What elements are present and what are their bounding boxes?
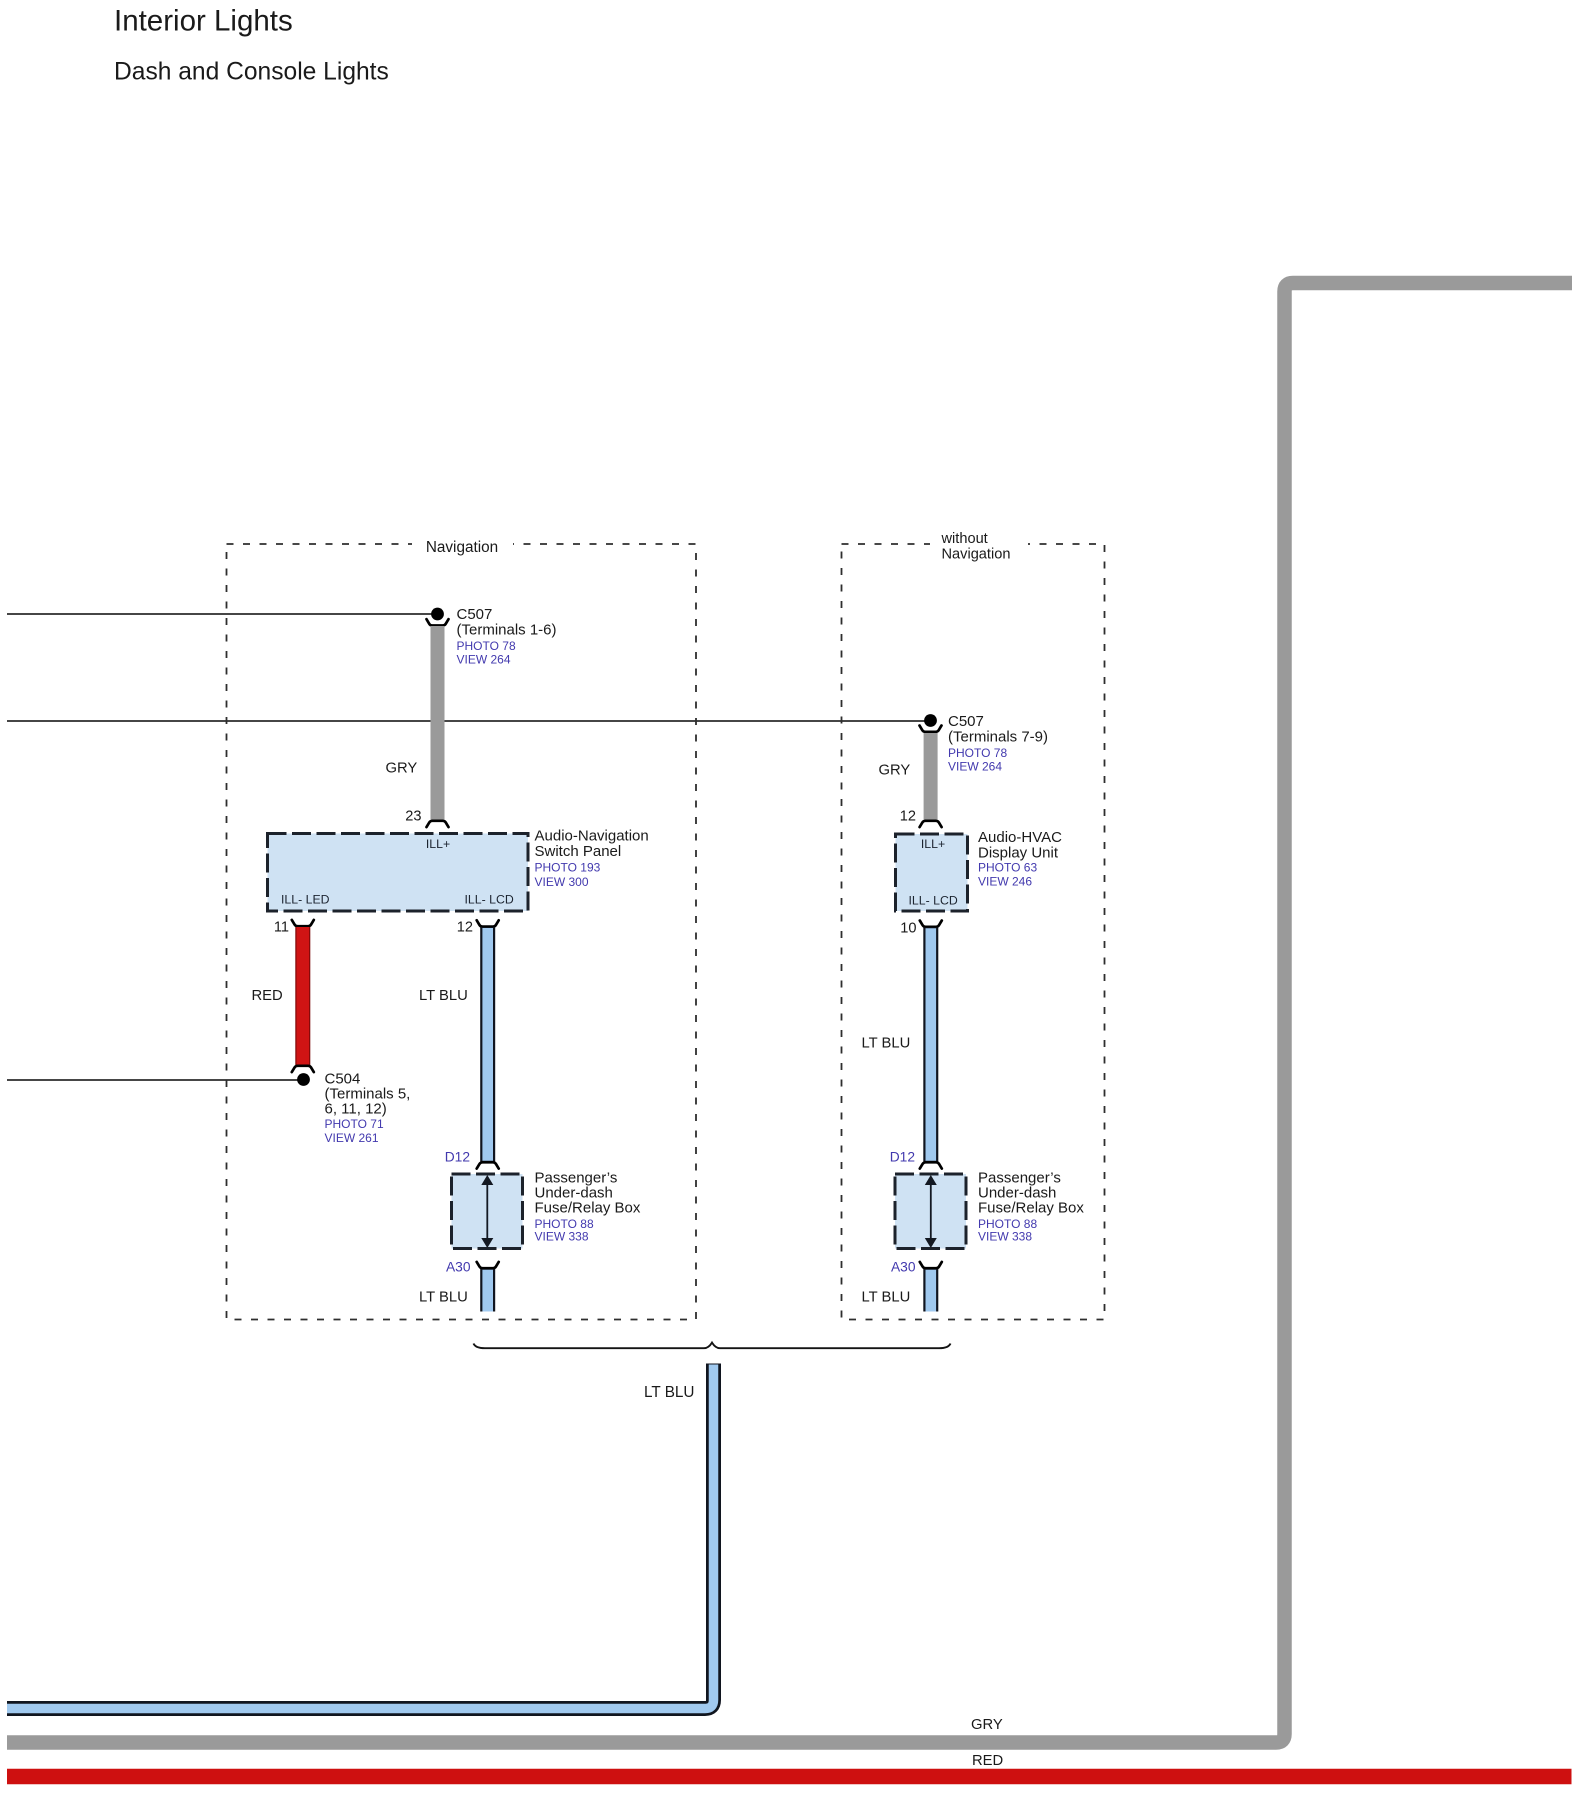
svg-text:GRY: GRY: [386, 761, 418, 777]
svg-text:LT BLU: LT BLU: [862, 1290, 911, 1306]
label Audio-HVAC Display Unit: [978, 829, 1062, 888]
svg-text:LT BLU: LT BLU: [644, 1384, 694, 1401]
svg-text:Dash and Console Lights: Dash and Console Lights: [114, 59, 389, 86]
wire GRY nav vertical: [431, 626, 445, 820]
svg-text:D12: D12: [445, 1150, 470, 1165]
svg-text:VIEW 264: VIEW 264: [948, 760, 1002, 774]
wire LT BLU w/o nav vertical: [923, 928, 938, 1162]
label Passenger's Under-dash Fuse/Relay Box nav: [535, 1170, 641, 1244]
svg-text:C507: C507: [457, 606, 493, 623]
svg-text:Fuse/Relay Box: Fuse/Relay Box: [978, 1200, 1084, 1217]
wire RED nav vertical: [295, 927, 310, 1065]
svg-text:RED: RED: [972, 1753, 1003, 1769]
wire GRY w/o nav vertical: [924, 733, 938, 820]
wire thin to C504: [7, 1079, 303, 1081]
svg-text:LT BLU: LT BLU: [419, 1290, 468, 1306]
svg-text:VIEW 246: VIEW 246: [978, 874, 1032, 888]
connector cup below ILL- LCD w/o nav: [920, 921, 942, 927]
connector cup below ILL- LCD nav: [477, 920, 499, 926]
svg-text:VIEW 338: VIEW 338: [535, 1230, 589, 1244]
svg-text:RED: RED: [252, 988, 283, 1004]
node C504 junction dot: [297, 1073, 310, 1086]
svg-text:23: 23: [405, 809, 421, 825]
svg-text:Display Unit: Display Unit: [978, 845, 1059, 862]
svg-text:6, 11, 12): 6, 11, 12): [325, 1101, 387, 1118]
label C507 (Terminals 7-9): [948, 713, 1048, 774]
connector cup below ILL- LED: [292, 920, 314, 926]
wire LT BLU nav vertical: [480, 927, 495, 1161]
connector cup C507 nav: [427, 619, 449, 625]
svg-text:A30: A30: [891, 1259, 916, 1274]
svg-text:ILL- LED: ILL- LED: [281, 893, 330, 907]
svg-text:(Terminals 1-6): (Terminals 1-6): [457, 622, 557, 639]
svg-text:ILL- LCD: ILL- LCD: [909, 894, 958, 908]
svg-text:VIEW 264: VIEW 264: [457, 653, 511, 667]
svg-text:ILL+: ILL+: [426, 837, 450, 851]
component U1 Audio-Navigation Switch Panel: [268, 834, 529, 912]
svg-text:PHOTO 78: PHOTO 78: [948, 746, 1007, 760]
svg-text:Navigation: Navigation: [426, 539, 498, 556]
svg-text:ILL+: ILL+: [921, 837, 945, 851]
svg-text:VIEW 261: VIEW 261: [325, 1131, 379, 1145]
label Audio-Navigation Switch Panel: [535, 828, 649, 890]
svg-text:A30: A30: [446, 1259, 471, 1274]
connector cup above ILL+ w/o nav: [920, 821, 942, 827]
connector cup below fuse box w/o nav: [920, 1262, 942, 1268]
component fuse/relay box w/o nav: [895, 1174, 966, 1249]
svg-text:GRY: GRY: [879, 763, 911, 779]
component U2 Audio-HVAC Display Unit: [896, 834, 968, 911]
connector cup above fuse box w/o nav: [920, 1162, 942, 1168]
dashed box without Navigation: [842, 527, 1105, 1320]
svg-text:PHOTO 78: PHOTO 78: [457, 639, 516, 653]
svg-text:VIEW 300: VIEW 300: [535, 875, 589, 889]
brace merging both columns: [474, 1343, 951, 1349]
wire thin to C507 terminals 7-9: [7, 720, 930, 722]
svg-text:Switch Panel: Switch Panel: [535, 843, 622, 860]
wire GRY bus (top-right horizontal, right vertical, bottom horizontal): [7, 283, 1572, 1743]
svg-text:without: without: [941, 531, 988, 547]
svg-text:Audio-Navigation: Audio-Navigation: [535, 828, 649, 845]
svg-text:Audio-HVAC: Audio-HVAC: [978, 829, 1062, 846]
svg-text:C507: C507: [948, 713, 984, 730]
svg-text:Fuse/Relay Box: Fuse/Relay Box: [535, 1200, 641, 1217]
connector cup above C504 dot: [292, 1066, 314, 1072]
svg-text:11: 11: [274, 920, 289, 936]
dashed box Navigation: [227, 534, 697, 1320]
svg-text:10: 10: [900, 921, 916, 937]
label C507 (Terminals 1-6): [457, 606, 557, 667]
connector cup above fuse box nav: [477, 1162, 499, 1168]
connector cup below fuse box nav: [477, 1262, 499, 1268]
wire thin to C507 terminals 1-6: [7, 613, 437, 615]
wire LT BLU w/o nav short: [923, 1269, 938, 1312]
wire RED bus (bottom horizontal): [7, 1769, 1572, 1785]
svg-text:LT BLU: LT BLU: [862, 1036, 911, 1052]
svg-text:PHOTO 63: PHOTO 63: [978, 860, 1037, 874]
svg-text:PHOTO 71: PHOTO 71: [325, 1117, 384, 1131]
label C504 (Terminals 5, 6, 11, 12): [325, 1071, 411, 1146]
svg-text:PHOTO 193: PHOTO 193: [535, 861, 601, 875]
svg-text:D12: D12: [890, 1150, 915, 1165]
connector cup above ILL+ nav: [427, 821, 449, 827]
connector cup C507 w/o nav: [920, 726, 942, 732]
node C507 (Terminals 7-9) junction dot: [924, 714, 937, 727]
svg-text:Interior Lights: Interior Lights: [114, 5, 293, 38]
svg-text:GRY: GRY: [971, 1717, 1003, 1733]
label Passenger's Under-dash Fuse/Relay Box w/o nav: [978, 1170, 1084, 1244]
svg-text:12: 12: [457, 920, 473, 936]
svg-text:Navigation: Navigation: [942, 547, 1011, 563]
component fuse/relay box nav: [452, 1174, 523, 1249]
arrow through fuse box nav: [481, 1175, 493, 1248]
svg-text:(Terminals 7-9): (Terminals 7-9): [948, 729, 1048, 746]
wire LT BLU bus (from brace down then left to edge): [7, 1364, 714, 1709]
arrow through fuse box w/o nav: [925, 1175, 937, 1248]
wire LT BLU nav short: [480, 1269, 495, 1312]
svg-text:VIEW 338: VIEW 338: [978, 1230, 1032, 1244]
node C507 (Terminals 1-6) junction dot: [431, 608, 444, 621]
svg-text:LT BLU: LT BLU: [419, 988, 468, 1004]
svg-text:12: 12: [900, 809, 916, 825]
svg-text:ILL- LCD: ILL- LCD: [465, 893, 514, 907]
